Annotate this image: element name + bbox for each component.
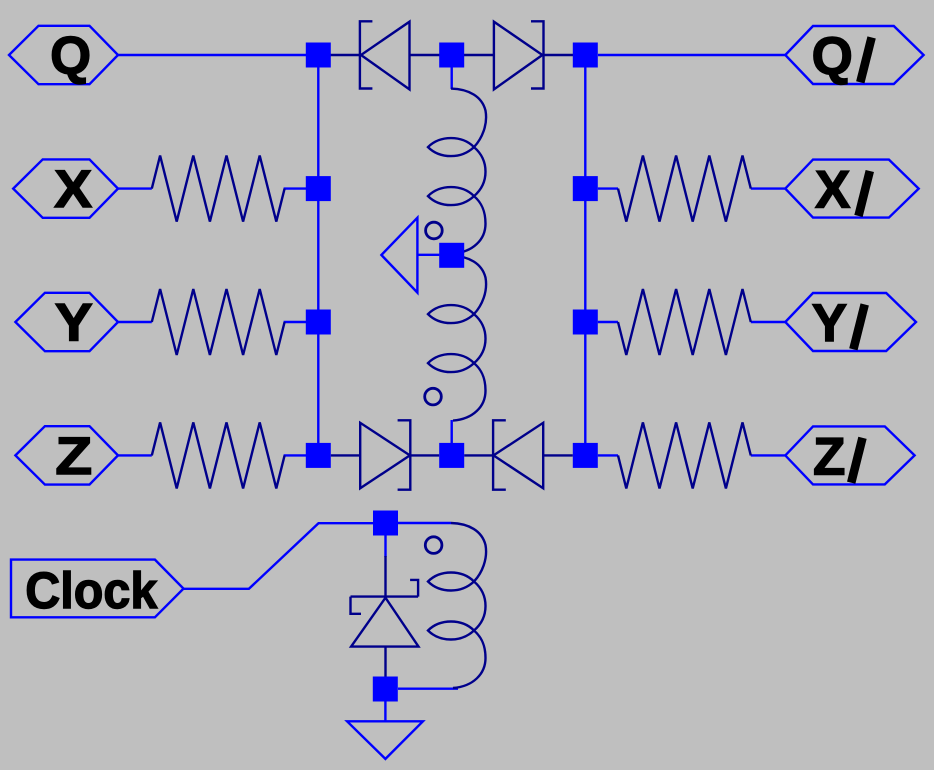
svg-text:Z: Z	[55, 427, 92, 486]
svg-text:Z: Z	[813, 427, 845, 486]
svg-text:X: X	[815, 161, 850, 220]
svg-text:Q: Q	[812, 27, 853, 86]
svg-text:X: X	[54, 160, 92, 219]
svg-text:Q: Q	[50, 27, 91, 86]
svg-text:Y: Y	[812, 294, 847, 353]
svg-text:Clock: Clock	[25, 562, 158, 619]
svg-text:Y: Y	[55, 294, 93, 353]
